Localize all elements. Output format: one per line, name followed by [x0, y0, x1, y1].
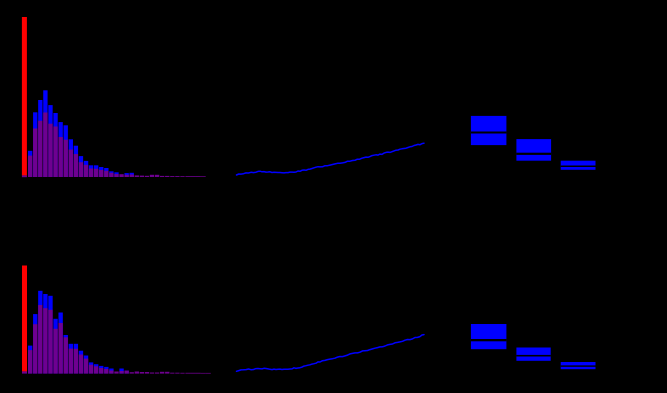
red spike bar row1	[22, 17, 27, 175]
boxplot box1 row1	[471, 116, 507, 145]
boxplot box1 row2	[471, 324, 507, 349]
boxplot box3 row2	[561, 362, 596, 369]
blue curve row1 (middle panel)	[237, 143, 425, 175]
boxplot box3 row1	[561, 161, 596, 170]
blue curve row2 (middle panel)	[237, 335, 425, 372]
boxplot box2 row2	[516, 348, 550, 361]
histogram purple overlap bars row2	[28, 305, 211, 374]
boxplot box2 row1	[516, 139, 551, 161]
purple overlap stub under red bar row2	[22, 371, 27, 373]
histogram blue bars row2	[28, 291, 129, 374]
histogram blue bars row1	[28, 90, 134, 177]
red spike bar row2	[22, 266, 27, 372]
histogram purple overlap bars row1	[28, 113, 206, 178]
purple overlap stub under red bar row1	[22, 175, 27, 177]
